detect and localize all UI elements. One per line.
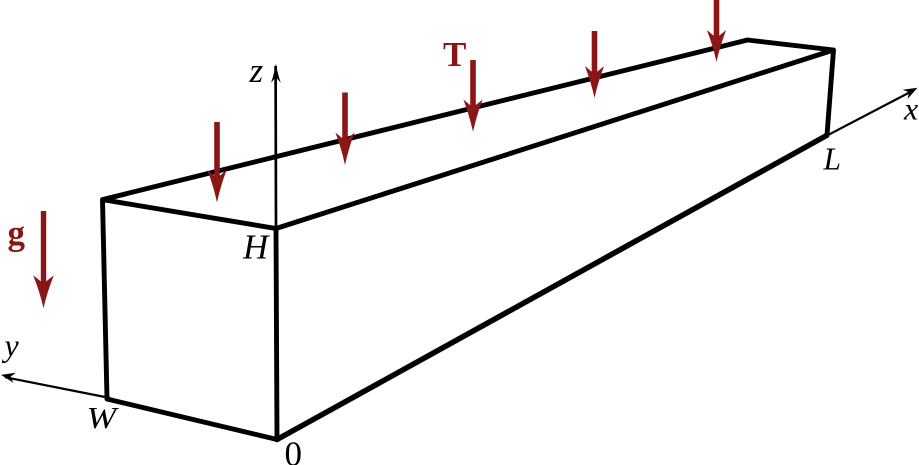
svg-text:x: x — [903, 91, 918, 127]
y axis line — [5, 377, 110, 398]
traction arrow 2 head — [335, 133, 354, 166]
traction arrow 5 head — [707, 30, 726, 62]
traction arrow 3 head — [463, 100, 482, 133]
traction arrow 4 shaft — [592, 31, 598, 80]
beam left end face — [103, 200, 278, 440]
label W — [87, 401, 120, 435]
x axis line — [827, 91, 914, 136]
svg-text:z: z — [249, 51, 264, 90]
beam front bottom long edge — [277, 135, 827, 439]
svg-text:L: L — [823, 141, 842, 176]
gravity arrow shaft — [41, 211, 46, 288]
svg-text:y: y — [2, 327, 20, 363]
svg-text:g: g — [8, 214, 26, 253]
beam far top long edge, far end top edge, far right vertical edge — [103, 40, 834, 200]
svg-text:0: 0 — [285, 435, 303, 465]
beam near top long edge — [276, 50, 834, 229]
svg-text:T: T — [443, 35, 466, 74]
traction arrow 1 head — [207, 170, 226, 203]
svg-text:H: H — [242, 228, 270, 267]
traction arrow 2 shaft — [342, 93, 348, 148]
gravity arrow head — [33, 275, 54, 308]
traction arrow 3 shaft — [470, 60, 476, 114]
traction arrow 5 shaft — [714, 0, 720, 44]
z axis arrowhead — [271, 64, 281, 83]
y axis arrowhead — [1, 373, 16, 383]
traction arrow 1 shaft — [214, 122, 220, 185]
svg-text:W: W — [87, 401, 120, 435]
x axis arrowhead — [903, 88, 918, 99]
z axis line — [274, 66, 277, 230]
traction arrow 4 head — [585, 66, 604, 98]
